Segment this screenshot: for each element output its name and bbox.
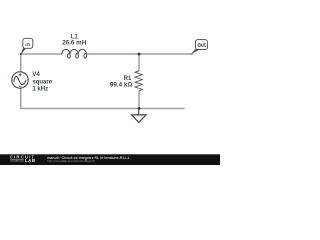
inductor L1 coil (62, 49, 87, 58)
ground triangle (132, 115, 146, 123)
V4 minus sign (19, 85, 22, 87)
flag "in" leader wedge (21, 48, 26, 54)
voltage source V4 circle (12, 72, 28, 88)
resistor R1 zigzag (135, 71, 142, 91)
wire vertical R1 bottom lead (138, 91, 140, 109)
V4 waveform glyph (14, 76, 26, 84)
wire vertical left (in corner down to V4 top) (20, 54, 22, 72)
ground stub (138, 109, 140, 115)
footer watermark bar (0, 154, 220, 165)
flag "out" leader wedge (191, 49, 200, 54)
wire top-right horizontal (L1 to out node) (86, 53, 193, 55)
svg-text:99.4 kΩ: 99.4 kΩ (110, 81, 133, 88)
flag "in" box (23, 38, 33, 48)
wire vertical left (V4 bottom to bottom rail) (20, 88, 22, 108)
flag "out" box (196, 40, 208, 50)
svg-text:LAB: LAB (25, 158, 36, 163)
CircuitLab logo trace glyph (10, 160, 24, 161)
junction node bottom (R1/ground rail) (138, 107, 141, 110)
flag "out" text (198, 43, 206, 47)
wire bottom rail (20, 108, 184, 110)
junction node top (R1/out) (138, 53, 141, 56)
wire top-left horizontal (in node to L1) (21, 53, 63, 55)
svg-text:1 kHz: 1 kHz (32, 87, 48, 93)
wire vertical R1 top lead (138, 54, 140, 71)
node at in corner (20, 53, 22, 55)
svg-text:V4: V4 (32, 72, 40, 78)
svg-text:26.6 mH: 26.6 mH (62, 39, 87, 46)
svg-text:http://circuitlab.com/circuit/: http://circuitlab.com/circuit/c6kpc39 (47, 159, 95, 163)
svg-text:square: square (32, 79, 52, 85)
flag "in" text (26, 42, 30, 46)
V4 plus sign (19, 73, 22, 76)
